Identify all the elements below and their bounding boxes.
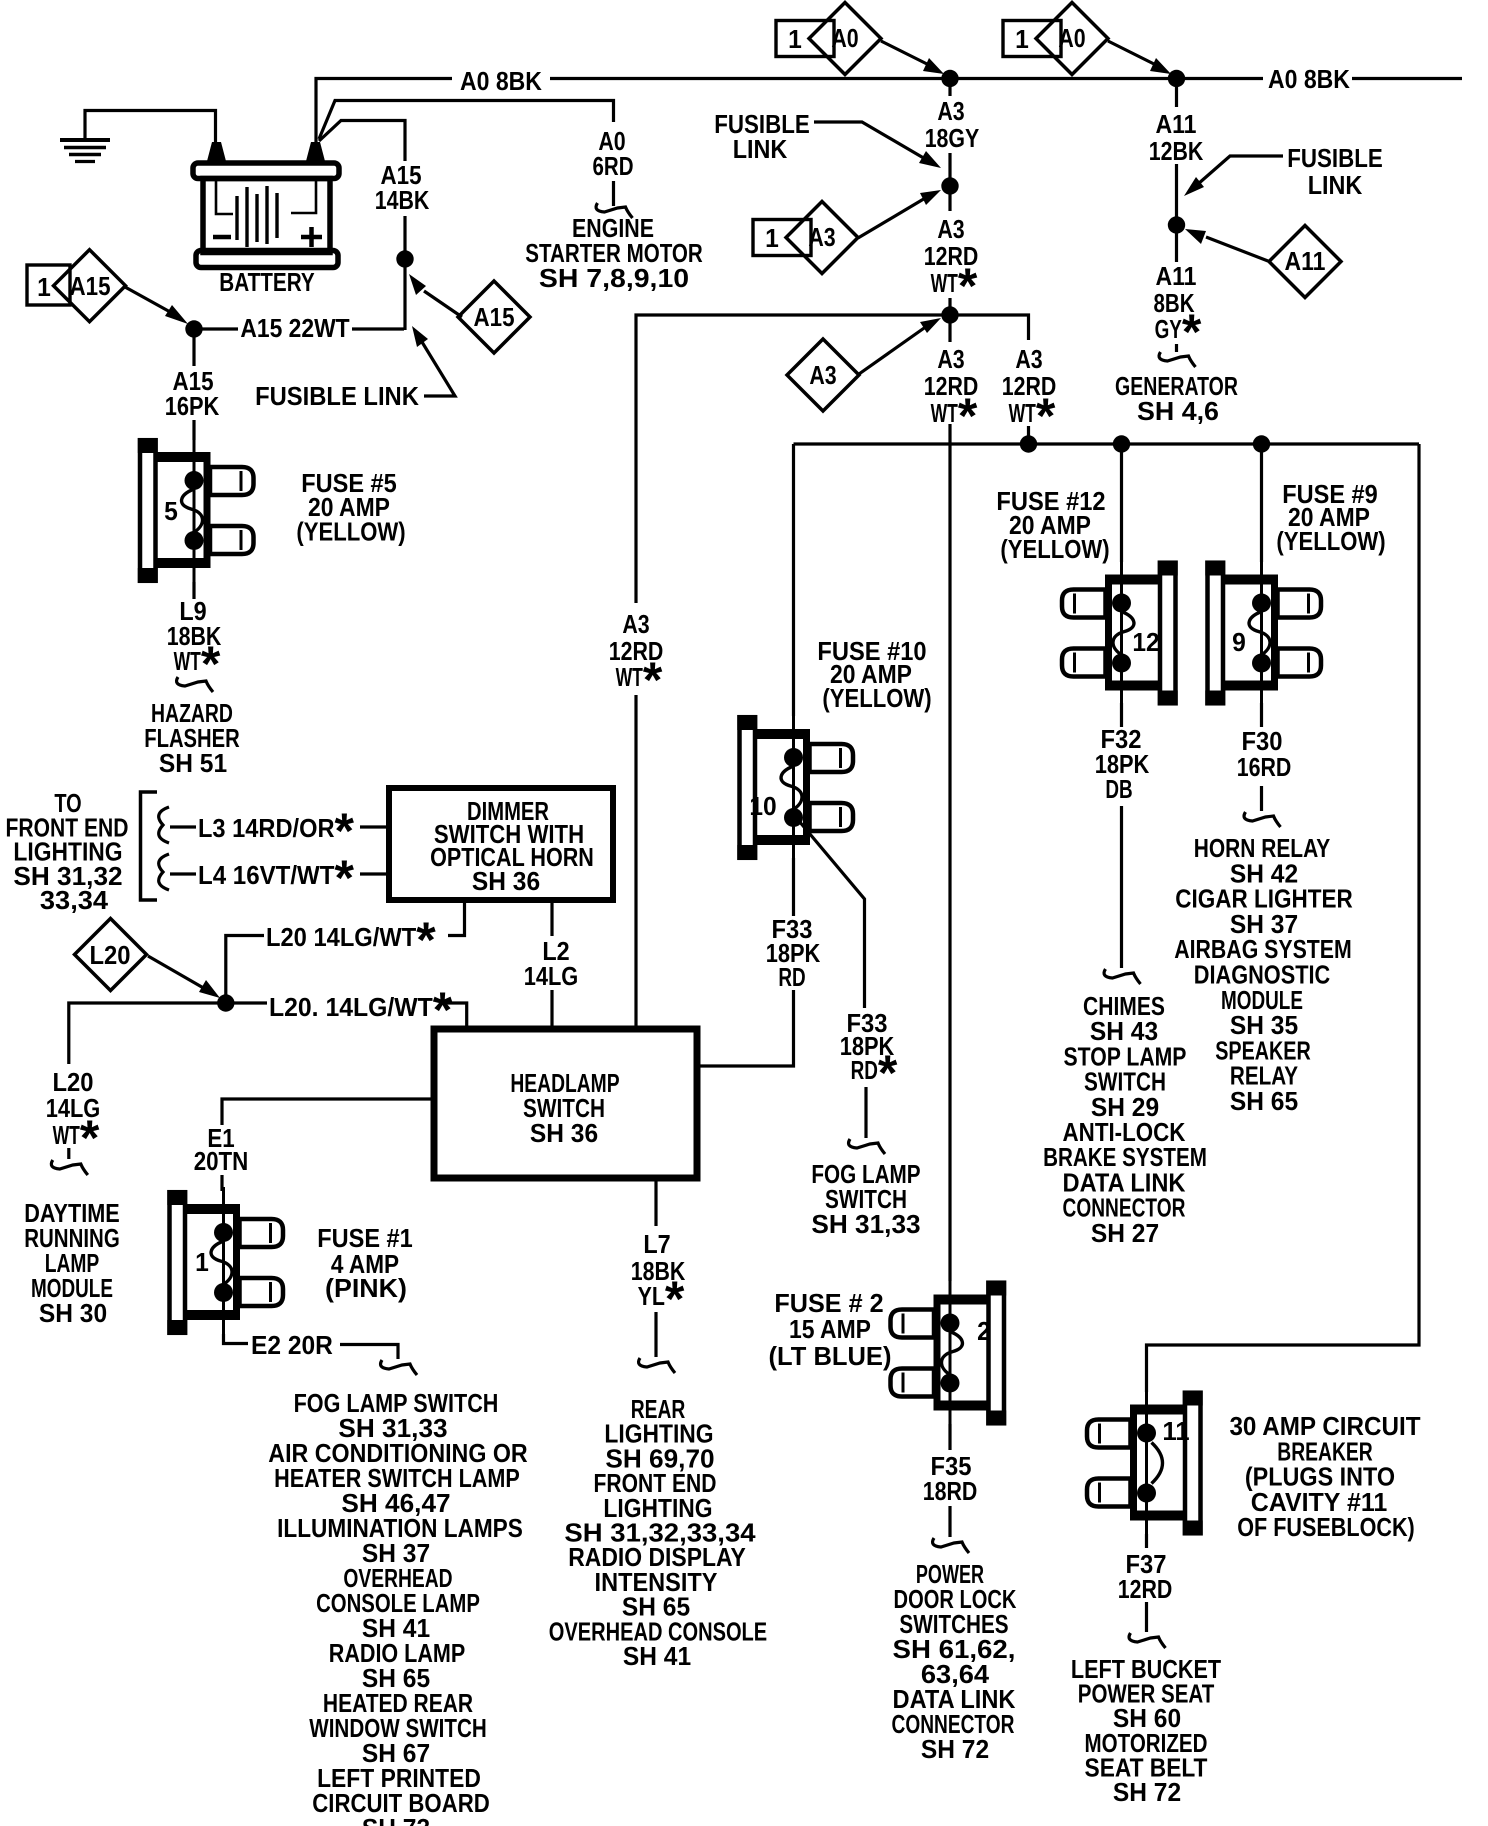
fuse F5 — [138, 435, 254, 585]
wire fuse bus horizontal — [794, 442, 1420, 445]
connector break hazard flasher — [177, 677, 213, 692]
connector break engine starter motor — [596, 203, 632, 218]
svg-text:BATTERY: BATTERY — [219, 267, 315, 297]
connector break horn relay — [1244, 812, 1280, 827]
svg-text:A15: A15 — [70, 271, 111, 301]
svg-text:10: 10 — [749, 791, 776, 821]
arrow L20 to junction — [148, 956, 220, 998]
hook L4 — [159, 854, 169, 890]
svg-text:POWERDOOR LOCKSWITCHESSH 61,62: POWERDOOR LOCKSWITCHESSH 61,62,63,64DATA… — [892, 1559, 1017, 1764]
wire fuse 9 column — [1260, 444, 1263, 811]
svg-text:A3: A3 — [937, 96, 964, 126]
node L20 junction — [217, 994, 234, 1011]
wire L7 18BK from headlamp switch bottom — [654, 1178, 657, 1357]
connector break generator — [1159, 352, 1195, 367]
connector break fog lamp switch right — [849, 1139, 885, 1154]
diamond A3 lower — [787, 339, 859, 411]
wire A3 12RD WT to headlamp switch — [636, 315, 948, 1029]
connector break left bucket power seat — [1129, 1633, 1165, 1648]
wire L4 16VT/WT — [170, 872, 390, 875]
connector break fog lamp switch left — [381, 1360, 417, 1375]
connector 1 box A0 right — [1003, 21, 1061, 57]
svg-text:A3: A3 — [808, 222, 835, 252]
svg-text:A0 8BK: A0 8BK — [1268, 64, 1350, 94]
svg-text:12: 12 — [1132, 627, 1159, 657]
node A11 8BK junction — [1168, 216, 1185, 233]
wire F37 12RD below circuit breaker — [1145, 1534, 1148, 1632]
svg-text:A11: A11 — [1156, 109, 1197, 139]
svg-text:18GY: 18GY — [925, 123, 980, 153]
svg-text:14BK: 14BK — [375, 185, 430, 215]
svg-text:9: 9 — [1232, 627, 1246, 657]
headlamp switch box — [434, 1029, 697, 1178]
wire L2 14LG dimmer to headlamp — [550, 902, 553, 1029]
wire L9 18BK below fuse 5 — [192, 582, 195, 599]
wire L3 14RD/OR — [170, 825, 390, 828]
svg-text:16PK: 16PK — [165, 391, 220, 421]
battery — [193, 142, 339, 268]
svg-text:6RD: 6RD — [593, 151, 634, 181]
node A0/A3 bus junction — [941, 70, 958, 87]
svg-text:A15: A15 — [474, 302, 515, 332]
diamond A3 — [786, 202, 858, 274]
fusible link label arrow left — [412, 326, 455, 396]
svg-text:1: 1 — [1015, 24, 1029, 54]
diamond A0 left — [809, 3, 881, 75]
svg-text:A15 22WT: A15 22WT — [240, 313, 349, 343]
diamond A11 — [1185, 226, 1341, 298]
connector 1 box A0 left — [776, 21, 834, 57]
connector break chimes — [1104, 969, 1140, 984]
wire A3 12RD WT right branch to fuse bus — [950, 315, 1029, 444]
svg-text:5: 5 — [164, 496, 178, 526]
bracket TO FRONT END LIGHTING — [141, 792, 158, 900]
svg-text:FUSIBLE: FUSIBLE — [1287, 143, 1383, 173]
arrow A15 to junction — [125, 287, 188, 324]
arrow A3 lower to junction — [859, 318, 941, 374]
wire A15 14BK from battery positive — [319, 121, 405, 331]
svg-text:30 AMP CIRCUITBREAKER(PLUGS IN: 30 AMP CIRCUITBREAKER(PLUGS INTOCAVITY #… — [1229, 1411, 1420, 1542]
svg-text:A11: A11 — [1285, 246, 1326, 276]
arrow A0 right to bus — [1108, 41, 1171, 74]
fusible link label arrow right — [1184, 156, 1283, 196]
svg-text:A3: A3 — [809, 360, 836, 390]
diamond A0 right — [1036, 3, 1108, 75]
connector break power door lock — [933, 1538, 969, 1553]
fuse F10 — [737, 712, 853, 862]
fuse F9 — [1205, 558, 1321, 708]
fusible link label arrow middle — [814, 122, 941, 168]
svg-text:11: 11 — [1162, 1416, 1189, 1446]
wire A0 8BK bus top — [316, 79, 1462, 145]
diamond A15 fusible link — [409, 274, 530, 353]
svg-text:FUSE #14 AMP(PINK): FUSE #14 AMP(PINK) — [317, 1223, 413, 1303]
wire E1 20TN from headlamp switch to fuse 1 — [222, 1099, 434, 1191]
svg-text:FOG LAMPSWITCHSH 31,33: FOG LAMPSWITCHSH 31,33 — [811, 1159, 920, 1239]
svg-text:F3712RD: F3712RD — [1118, 1549, 1173, 1604]
svg-text:2: 2 — [977, 1316, 991, 1346]
node A15 14BK junction — [396, 250, 413, 267]
connector 1 box A15 — [27, 265, 70, 305]
svg-text:F3518RD: F3518RD — [923, 1451, 978, 1506]
diamond L20 — [75, 919, 147, 991]
wire A15 16PK to fuse 5 — [192, 331, 195, 440]
arrow A0 left to bus — [881, 41, 944, 74]
wire A3 column vertical — [948, 79, 951, 1282]
node A3 12RD junction — [941, 306, 958, 323]
svg-text:E2 20R: E2 20R — [251, 1330, 333, 1360]
node A15 22WT junction — [185, 320, 202, 337]
ground — [60, 140, 110, 162]
wire F33 18PK RD below fuse 10 — [700, 858, 794, 1066]
svg-text:LINK: LINK — [733, 134, 788, 164]
dimmer switch box — [389, 788, 613, 900]
wire bus right end down to circuit breaker — [1147, 444, 1420, 1392]
node A11 bus junction — [1168, 70, 1185, 87]
svg-text:1: 1 — [765, 223, 779, 253]
wire A11 column vertical — [1175, 79, 1178, 353]
svg-text:A0: A0 — [831, 23, 858, 53]
svg-text:L20: L20 — [90, 940, 131, 970]
svg-text:1: 1 — [788, 24, 802, 54]
diamond A15 left — [54, 250, 126, 322]
svg-text:A0 8BK: A0 8BK — [460, 66, 542, 96]
svg-text:1: 1 — [37, 272, 51, 302]
wire fuse 12 column — [1120, 444, 1123, 968]
wire L20 14LG/WT from dimmer bottom — [226, 902, 465, 1003]
svg-text:HAZARDFLASHERSH 51: HAZARDFLASHERSH 51 — [144, 698, 240, 778]
node bus fuse12 branch — [1113, 435, 1130, 452]
fuse F1 — [167, 1187, 283, 1337]
connector break daytime running lamp — [51, 1160, 87, 1175]
wire F35 18RD below fuse 2 — [948, 1424, 951, 1537]
svg-text:FUSE #920 AMP(YELLOW): FUSE #920 AMP(YELLOW) — [1276, 479, 1385, 556]
connector break rear lighting — [639, 1358, 675, 1373]
svg-text:1: 1 — [195, 1247, 209, 1277]
wire L20 14LG/WT to headlamp switch — [234, 1003, 467, 1029]
wire ground to battery negative — [85, 111, 216, 146]
svg-text:12BK: 12BK — [1149, 136, 1204, 166]
wire bus left end down to fuse 10 — [792, 444, 795, 716]
node bus fuse2 branch — [1020, 435, 1037, 452]
fuse F2 — [891, 1278, 1007, 1428]
wire L20 14LG WT to daytime running lamp module — [69, 1003, 226, 1159]
wire A15 22WT — [194, 327, 404, 330]
node A3 18GY junction — [941, 177, 958, 194]
hook L3 — [159, 807, 169, 843]
svg-text:A0: A0 — [1058, 23, 1085, 53]
circuit breaker CB11 — [1087, 1388, 1203, 1538]
fuse F12 — [1062, 558, 1178, 708]
svg-text:LINK: LINK — [1308, 170, 1363, 200]
wire E2 20R below fuse 1 — [224, 1334, 399, 1359]
connector 1 box A3 — [753, 220, 811, 256]
node bus fuse9 branch — [1253, 435, 1270, 452]
svg-text:FUSE #520 AMP(YELLOW): FUSE #520 AMP(YELLOW) — [296, 468, 405, 547]
wire A0 6RD to engine starter motor — [319, 101, 614, 207]
arrow A3 to junction — [858, 190, 941, 238]
wire F33 18PK RD diagonal branch — [799, 821, 866, 1138]
svg-text:FUSIBLE LINK: FUSIBLE LINK — [255, 381, 419, 411]
